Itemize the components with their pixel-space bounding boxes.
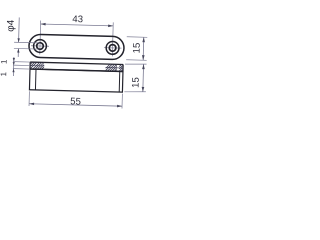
dims 1,1 upper arrow (13, 58, 15, 62)
lower block outline (29, 69, 123, 92)
phi4 dimension line lower segment (17, 49, 19, 57)
55 arrow right (117, 105, 122, 108)
right hole centerline horizontal (104, 47, 121, 49)
svg-text:55: 55 (70, 96, 81, 107)
phi4 extension line lower tangent (14, 47, 39, 50)
hatching left end of section (30, 62, 44, 69)
dimension 43 arrow left (41, 23, 46, 26)
15 extension line top (side view) (125, 64, 147, 65)
15 extension line bottom (top view) (126, 59, 146, 62)
dims 1,1 extension lines (13, 62, 30, 69)
side view plate top edge (30, 62, 123, 64)
svg-text:1: 1 (0, 59, 9, 64)
phi4 lower arrow (17, 49, 20, 53)
dims 1,1 lower arrow (12, 69, 14, 73)
left hole bore circle (37, 43, 44, 50)
dimension 43 extension line right / right hole centerline vertical (111, 22, 114, 56)
55 extension line right (121, 94, 123, 109)
dimension 43 line (41, 24, 114, 26)
15 dimension line (side view) (142, 64, 145, 92)
15 extension line top (top view) (127, 36, 147, 39)
svg-text:1: 1 (0, 71, 8, 76)
svg-text:43: 43 (72, 14, 83, 25)
left hole centerline horizontal (31, 45, 49, 47)
hatch zone boundary right (115, 64, 117, 71)
left hole countersink circle (33, 39, 46, 52)
hatching right end of section part 1 (106, 64, 116, 71)
side view plate mid line (30, 65, 44, 67)
15 dimension line (top view) (142, 37, 145, 60)
side view plate bottom edge (30, 69, 123, 71)
side view plate left end edge (29, 62, 31, 69)
svg-text:15: 15 (131, 77, 142, 88)
15 bottom arrow (side view) (142, 87, 145, 92)
right hole bore circle (109, 45, 116, 52)
lower block inner line left (34, 69, 37, 90)
dims 1,1 dimension line (12, 57, 14, 76)
svg-text:φ4: φ4 (6, 19, 17, 32)
obround plate outline (top view) (29, 34, 125, 59)
phi4 dimension line upper segment (18, 17, 21, 42)
phi4 extension line upper tangent (14, 41, 39, 44)
15 top arrow (side view) (142, 64, 145, 69)
side view plate right end edge (122, 64, 124, 71)
55 arrow left (29, 102, 34, 105)
dimension 43 extension line left / left hole centerline vertical (39, 21, 42, 55)
dims 1,1 middle arrow (13, 62, 15, 65)
svg-text:15: 15 (131, 43, 142, 54)
hatching right end of section part 2 (119, 64, 123, 71)
dimension 43 arrow right (108, 24, 113, 27)
55 dimension line (29, 104, 122, 106)
right hole countersink circle (106, 41, 119, 54)
lower block inner line right (118, 71, 121, 92)
15 top arrow (top view) (142, 37, 145, 42)
15 bottom arrow (top view) (142, 55, 145, 60)
15 extension line bottom (side view) (124, 91, 146, 92)
phi4 upper arrow (17, 38, 20, 42)
55 extension line left (28, 91, 30, 106)
